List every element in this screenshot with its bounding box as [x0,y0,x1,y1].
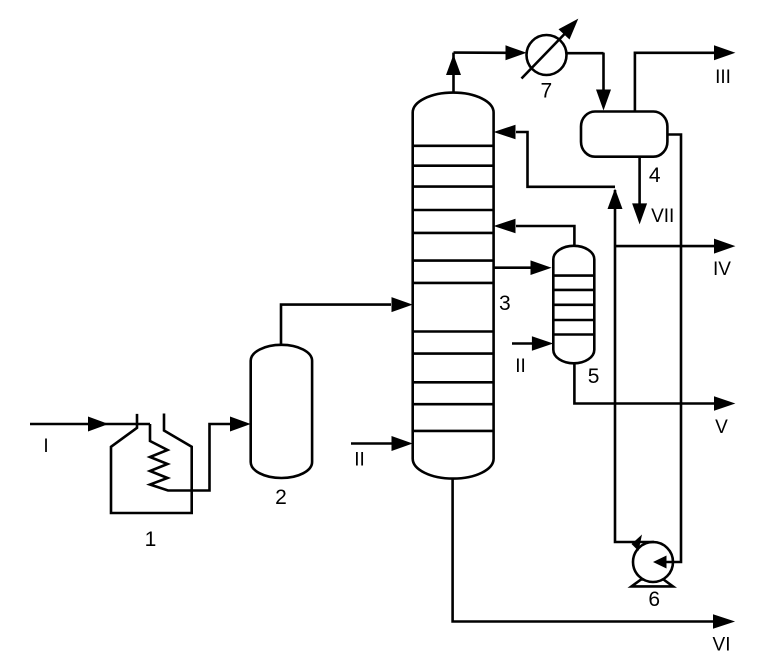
furnace 1 outline [111,414,192,514]
wire column to stripper [494,260,552,275]
stream V [574,363,735,411]
svg-text:IV: IV [713,259,731,280]
stream III [635,45,736,111]
column trays [413,146,494,431]
svg-text:II: II [515,356,526,377]
stripper vapor return wire [494,219,575,247]
wire vessel2 top to column feed [281,297,413,345]
furnace coil [150,417,251,491]
column 3 [413,93,494,479]
column overhead vapor line [446,45,527,92]
svg-text:7: 7 [540,80,552,103]
stream I feed line [30,417,150,432]
svg-text:VI: VI [713,635,731,656]
svg-text:VII: VII [651,206,674,227]
svg-text:1: 1 [145,528,157,551]
wire condenser to drum 4 [566,53,611,111]
reflux wire to column [494,125,615,187]
stream II into column [351,436,413,451]
svg-text:III: III [715,67,731,88]
svg-text:V: V [715,417,728,438]
svg-text:5: 5 [588,365,600,388]
reflux drum 4 [581,112,667,157]
pump discharge wire and riser [608,189,655,552]
vessel 2 [251,345,312,478]
svg-text:I: I [43,436,48,457]
svg-text:4: 4 [649,164,661,187]
stream VI [453,479,735,629]
svg-text:II: II [354,450,365,471]
stream VII [632,157,647,225]
condenser 7 [522,19,579,79]
stream IV [615,239,735,254]
svg-text:2: 2 [275,486,287,509]
stripper trays [553,276,594,335]
wire drum 4 to pump suction [653,135,681,569]
stripper 5 [553,246,594,363]
svg-text:3: 3 [499,292,511,315]
pump 6 [632,542,674,586]
stream II into stripper [512,336,553,351]
svg-text:6: 6 [648,588,660,611]
